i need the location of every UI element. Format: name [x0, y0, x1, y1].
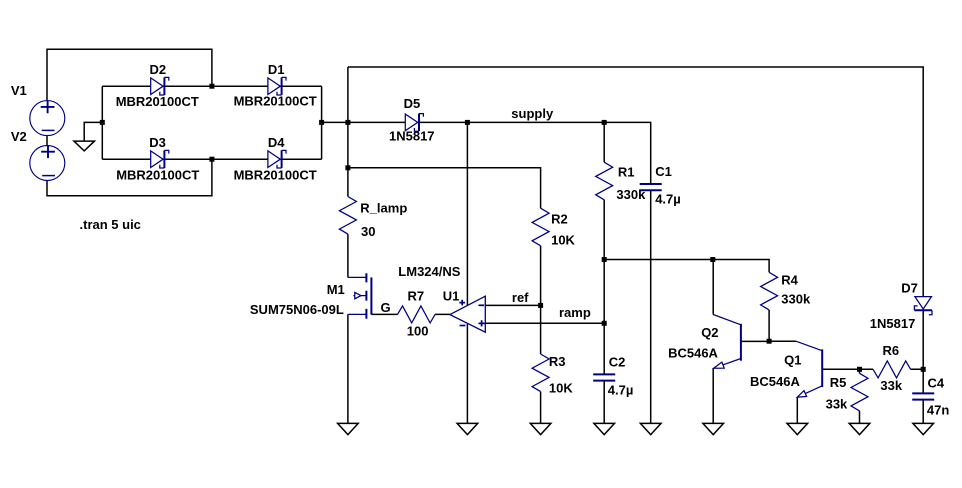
- svg-text:D1: D1: [268, 62, 285, 77]
- svg-text:D4: D4: [268, 135, 285, 150]
- svg-text:33k: 33k: [880, 378, 902, 393]
- svg-text:1N5817: 1N5817: [870, 316, 916, 331]
- svg-text:MBR20100CT: MBR20100CT: [116, 94, 199, 109]
- svg-text:U1: U1: [443, 289, 460, 304]
- svg-text:SUM75N06-09L: SUM75N06-09L: [250, 302, 344, 317]
- svg-text:V2: V2: [11, 129, 27, 144]
- svg-text:MBR20100CT: MBR20100CT: [234, 94, 317, 109]
- svg-text:G: G: [381, 300, 391, 315]
- svg-text:R_lamp: R_lamp: [360, 200, 407, 215]
- svg-text:supply: supply: [511, 106, 554, 121]
- svg-text:MBR20100CT: MBR20100CT: [234, 167, 317, 182]
- svg-text:10K: 10K: [551, 232, 575, 247]
- svg-text:MBR20100CT: MBR20100CT: [116, 167, 199, 182]
- svg-text:330k: 330k: [781, 291, 811, 306]
- svg-text:30: 30: [361, 224, 375, 239]
- svg-text:4.7µ: 4.7µ: [655, 192, 681, 207]
- svg-text:330k: 330k: [616, 187, 646, 202]
- svg-text:V1: V1: [11, 83, 27, 98]
- svg-text:R2: R2: [551, 212, 568, 227]
- svg-text:1N5817: 1N5817: [389, 129, 435, 144]
- svg-text:10K: 10K: [549, 381, 573, 396]
- svg-text:D3: D3: [149, 135, 166, 150]
- svg-text:4.7µ: 4.7µ: [608, 383, 634, 398]
- svg-text:C4: C4: [928, 375, 945, 390]
- svg-text:D5: D5: [404, 96, 421, 111]
- svg-text:BC546A: BC546A: [750, 374, 800, 389]
- svg-text:.tran 5 uic: .tran 5 uic: [80, 217, 141, 232]
- svg-text:D2: D2: [150, 62, 167, 77]
- svg-text:R7: R7: [408, 289, 425, 304]
- svg-text:Q2: Q2: [701, 325, 718, 340]
- svg-text:M1: M1: [327, 282, 345, 297]
- svg-text:R1: R1: [618, 164, 635, 179]
- svg-text:33k: 33k: [826, 397, 848, 412]
- svg-text:C1: C1: [655, 164, 672, 179]
- svg-text:R4: R4: [781, 272, 798, 287]
- svg-text:ramp: ramp: [559, 305, 591, 320]
- svg-text:100: 100: [407, 323, 429, 338]
- svg-text:ref: ref: [512, 290, 529, 305]
- svg-text:47n: 47n: [927, 402, 949, 417]
- svg-text:LM324/NS: LM324/NS: [398, 264, 460, 279]
- svg-text:C2: C2: [609, 355, 626, 370]
- svg-text:R5: R5: [830, 375, 847, 390]
- svg-text:R3: R3: [549, 354, 566, 369]
- svg-text:Q1: Q1: [784, 352, 801, 367]
- svg-text:D7: D7: [901, 281, 918, 296]
- svg-text:R6: R6: [883, 343, 900, 358]
- svg-text:BC546A: BC546A: [668, 346, 718, 361]
